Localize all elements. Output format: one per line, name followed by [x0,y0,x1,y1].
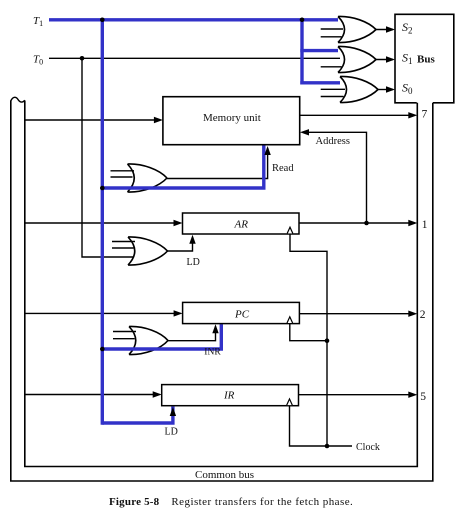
register AR box [183,213,300,234]
wire bus to AR input [25,222,180,224]
or-gate AR load [128,237,168,265]
arrowhead of read line into memory [264,146,270,155]
node INR branch junction [100,347,105,352]
node T1 junction [100,18,105,23]
wire PC output to bus (select 2) [299,313,415,315]
common bus outer line [11,101,433,482]
wire S1 gate output [376,59,393,61]
svg-text:T0: T0 [33,54,43,67]
node T1 branch junction top right [300,18,305,23]
node read branch junction [100,186,105,191]
svg-text:T1: T1 [33,15,43,28]
or-gate S2 input stubs [321,29,343,37]
wire LD branch (blue): to IR load input [102,407,173,425]
node PC clock junction [325,338,330,343]
wire PC clock line [290,324,327,341]
or-gate S1 [338,46,376,72]
svg-text:LD: LD [187,257,200,268]
wire T1 branch vertical at top right (blue) [300,18,303,84]
wire read gate output to memory Read pin [167,148,268,179]
svg-text:Common bus: Common bus [195,469,254,481]
svg-text:Read: Read [272,163,294,174]
wire bus to PC input [25,312,180,314]
common bus inner line [25,101,418,467]
or-gate memory read [128,164,168,192]
or-gate S2 [338,16,376,42]
or-gate S1 input stub [321,66,342,68]
wire main T1 vertical rail (blue) [101,18,104,425]
wire bus to IR input [25,394,160,396]
register PC box [183,302,300,323]
memory unit box [163,97,300,145]
or-gate S0 input stubs [321,89,345,96]
svg-text:Clock: Clock [356,442,380,453]
wire IR output to bus (select 5) [299,394,416,396]
svg-text:Figure 5-8Register transfers f: Figure 5-8Register transfers for the fet… [109,496,353,508]
wire branch to S0 gate (blue) [300,81,340,84]
wire address line from AR output into memory [302,132,367,223]
svg-text:5: 5 [420,391,426,403]
clock triangle on PC [287,317,293,323]
wire branch to S1 gate (blue) [300,49,338,52]
wire T0 vertical drop to AR load gate [82,58,133,257]
svg-text:LD: LD [165,427,178,438]
or-gate AR load input stubs [112,242,135,249]
wire INR branch (blue): to PC increment input [101,324,222,349]
or-gate PC increment [129,326,168,354]
or-gate PC increment input stubs [113,332,136,339]
wire AR output to bus (select 1) [299,222,415,224]
wire T0 horizontal [49,57,340,59]
wire read branch (blue): to memory Read input [101,146,264,189]
wire S2 gate output [376,29,393,31]
svg-text:S1: S1 [402,51,413,67]
wire AR load gate output to AR LD pin [167,237,193,251]
bus selection box S2 S1 S0 [395,14,454,103]
svg-text:7: 7 [422,109,428,121]
svg-text:S0: S0 [402,81,413,97]
svg-text:2: 2 [420,309,426,321]
svg-text:S2: S2 [402,20,413,36]
svg-text:Bus: Bus [417,54,435,66]
clock triangle on AR [287,227,293,233]
clock triangle on IR [287,399,293,405]
arrowhead on IR LD blue line [170,407,176,416]
arrowhead of INR line into PC [212,324,218,333]
svg-text:Address: Address [316,136,350,147]
node address tap on AR output [364,221,369,226]
svg-text:INR: INR [204,348,221,358]
svg-text:1: 1 [422,219,428,231]
wire S0 gate output [378,89,393,91]
or-gate memory read input stubs [111,171,135,177]
svg-text:IR: IR [223,390,235,402]
register IR box [162,385,299,406]
wire IR clock line [290,406,353,446]
wire memory output to bus (select 7) [300,114,415,116]
svg-text:Memory unit: Memory unit [203,112,261,124]
svg-text:PC: PC [234,309,250,321]
or-gate S0 [340,76,378,102]
wire bus to memory input [25,119,160,121]
wire AR clock line [290,234,327,446]
node T0 junction [80,56,85,61]
wire T1 horizontal (blue, active) [49,18,338,21]
node IR clock junction [325,444,330,449]
svg-text:AR: AR [234,219,249,231]
wire PC increment gate output to INR pin [167,327,216,341]
common bus torn-end squiggle [11,97,25,102]
